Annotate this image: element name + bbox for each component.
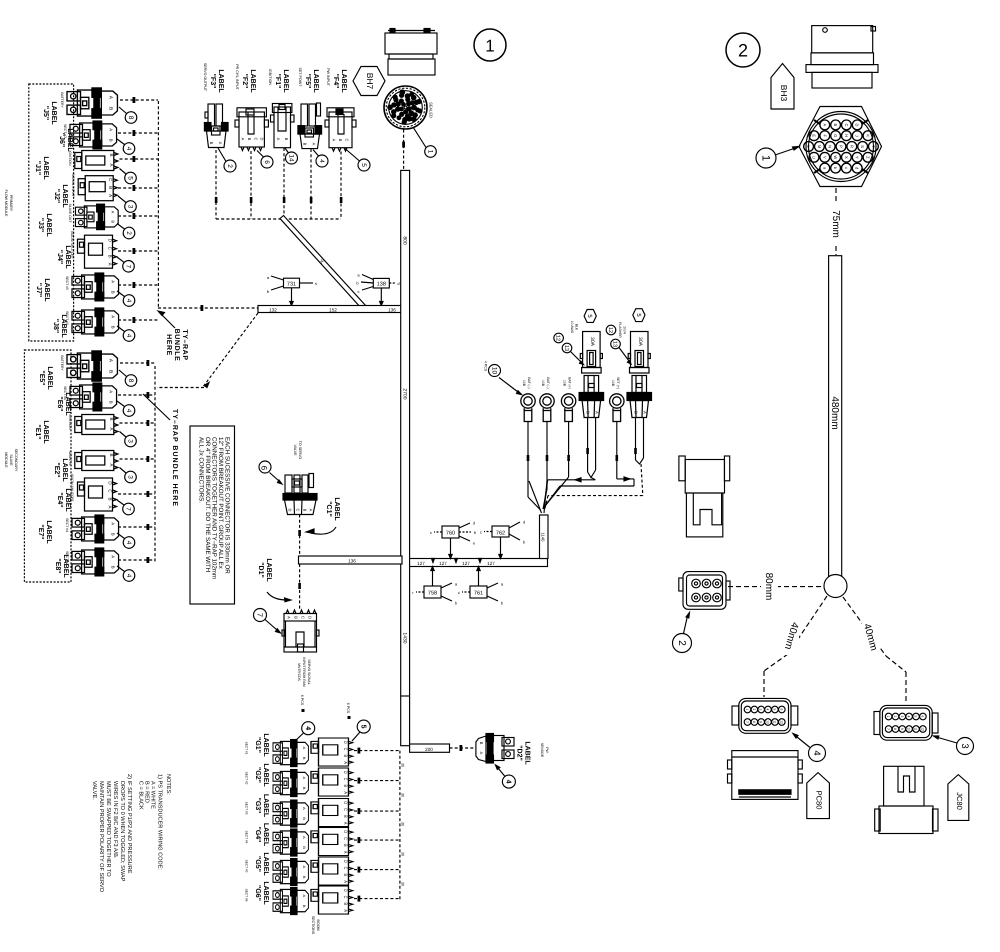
balloon 12 breaker1 xyxy=(554,333,564,343)
svg-text:SLAVE OUT: SLAVE OUT xyxy=(68,204,72,223)
trunk dim 2700 xyxy=(401,386,408,402)
balloon 7 D1 xyxy=(254,609,281,634)
svg-text:SENSOR: SENSOR xyxy=(540,743,544,758)
wire collector F dashed xyxy=(216,218,341,220)
svg-text:D: D xyxy=(855,123,860,126)
svg-text:"G1": "G1" xyxy=(254,737,261,753)
connector JD80 side view xyxy=(875,766,938,833)
svg-text:1140: 1140 xyxy=(541,532,546,542)
svg-text:LABEL: LABEL xyxy=(45,213,52,237)
svg-text:"G2": "G2" xyxy=(254,767,261,783)
svg-text:PW: PW xyxy=(545,747,549,753)
connector J5 xyxy=(60,88,117,118)
svg-text:B: B xyxy=(303,143,308,146)
connector E4 xyxy=(70,474,117,511)
svg-text:7: 7 xyxy=(745,721,749,723)
tag JC80 xyxy=(948,775,969,821)
svg-text:LABEL: LABEL xyxy=(43,278,50,302)
connector E5 xyxy=(60,351,117,381)
trunk dim 1430 xyxy=(401,630,408,646)
label J8 xyxy=(52,314,67,338)
connector JD80 face 12-pin xyxy=(874,705,938,740)
svg-text:SLAVE: SLAVE xyxy=(9,454,13,466)
svg-text:D: D xyxy=(308,616,313,619)
svg-text:U: U xyxy=(812,156,817,159)
wire G4 dashed xyxy=(354,837,400,843)
svg-text:BAT (+): BAT (+) xyxy=(568,377,572,388)
svg-text:V: V xyxy=(822,156,827,159)
backshell BH7 body xyxy=(385,29,437,76)
connector G4 right xyxy=(311,828,353,856)
svg-text:A: A xyxy=(276,138,281,141)
svg-text:PRIMARY: PRIMARY xyxy=(9,195,13,212)
wire G1 dashed xyxy=(354,748,400,754)
balloon 13 breaker2 xyxy=(611,339,631,364)
svg-text:4: 4 xyxy=(304,726,311,730)
label J1 xyxy=(34,156,49,180)
svg-text:760: 760 xyxy=(446,531,455,537)
connector E2 xyxy=(68,450,118,470)
svg-text:11: 11 xyxy=(914,727,918,731)
label C1 xyxy=(306,497,340,534)
svg-text:480mm: 480mm xyxy=(829,396,840,429)
wire collector G dashed xyxy=(400,751,405,900)
svg-text:SERVO OUTPUT: SERVO OUTPUT xyxy=(203,63,207,92)
svg-text:LABEL: LABEL xyxy=(262,794,269,818)
wire breaker1 xyxy=(544,418,596,510)
svg-text:ALL Jx CONNECTORS.: ALL Jx CONNECTORS. xyxy=(198,437,205,503)
label E7 xyxy=(37,520,52,544)
note boom sections xyxy=(311,916,320,935)
svg-text:TY–RAP BUNDLE HERE: TY–RAP BUNDLE HERE xyxy=(171,409,178,507)
wire lead from round connector xyxy=(402,130,405,171)
wire E8 dashed xyxy=(118,557,155,563)
module label secondary xyxy=(4,449,18,472)
svg-text:HERE: HERE xyxy=(165,334,172,356)
wire F4 dashed xyxy=(340,152,343,220)
svg-text:127: 127 xyxy=(462,561,470,566)
connector D2 xyxy=(476,734,514,764)
svg-text:c: c xyxy=(430,530,432,535)
svg-text:A: A xyxy=(312,143,317,146)
connector PC80 side view xyxy=(728,751,803,800)
trunk joint tick xyxy=(401,695,410,697)
breaker 2 xyxy=(618,322,652,417)
label F2 xyxy=(235,64,256,93)
label E5 xyxy=(38,366,53,390)
svg-text:d: d xyxy=(855,167,860,169)
svg-text:"E7": "E7" xyxy=(37,524,44,539)
svg-text:758: 758 xyxy=(428,591,437,597)
note servo signal input xyxy=(297,657,311,712)
svg-text:12: 12 xyxy=(607,327,613,333)
harness trunk vertical xyxy=(401,170,410,745)
svg-text:VALVE: VALVE xyxy=(293,444,297,456)
notes text xyxy=(91,774,171,893)
svg-text:127: 127 xyxy=(487,561,495,566)
wire code 758 xyxy=(412,567,458,606)
svg-text:D: D xyxy=(288,509,293,512)
svg-text:N: N xyxy=(828,145,833,148)
svg-text:P: P xyxy=(839,145,844,148)
connector J2 xyxy=(71,173,117,200)
module label primary xyxy=(4,190,13,217)
svg-text:A: A xyxy=(218,142,223,145)
svg-text:LABEL: LABEL xyxy=(45,520,52,544)
wire G2 dashed xyxy=(354,778,400,784)
connector round multi-pin xyxy=(384,86,434,129)
svg-text:K: K xyxy=(866,134,871,137)
svg-text:10: 10 xyxy=(766,720,770,724)
junction circle xyxy=(824,575,847,598)
svg-text:1430: 1430 xyxy=(401,632,407,643)
wire ring3 xyxy=(545,422,570,506)
svg-text:1: 1 xyxy=(886,716,890,718)
svg-text:W: W xyxy=(833,155,838,159)
svg-text:2: 2 xyxy=(226,164,233,168)
svg-text:3: 3 xyxy=(127,439,134,443)
tag PC80 xyxy=(807,773,830,819)
svg-text:"G6": "G6" xyxy=(254,885,261,901)
svg-text:6: 6 xyxy=(260,466,269,471)
connector G3 left xyxy=(245,800,309,827)
svg-text:2) IF SETTING P1/P2 AND PRESSU: 2) IF SETTING P1/P2 AND PRESSURE xyxy=(126,774,133,874)
harness collector vertical xyxy=(540,515,549,559)
svg-text:LABEL: LABEL xyxy=(340,69,347,93)
svg-text:SECONDARY: SECONDARY xyxy=(14,449,18,472)
svg-text:4: 4 xyxy=(125,409,132,413)
label J7 xyxy=(35,278,50,302)
svg-text:LABEL: LABEL xyxy=(262,823,269,847)
svg-text:BOOM: BOOM xyxy=(316,920,320,931)
svg-text:12: 12 xyxy=(920,727,924,731)
balloon 4 J7 xyxy=(117,291,135,306)
svg-text:152: 152 xyxy=(329,307,337,312)
wire ring2 xyxy=(543,422,548,509)
svg-text:"E5": "E5" xyxy=(38,370,45,385)
wire dashed diagonal to E bundle xyxy=(157,313,258,388)
svg-text:LABEL: LABEL xyxy=(42,156,49,180)
balloon 4 item xyxy=(793,734,826,762)
svg-text:TO SERVO: TO SERVO xyxy=(298,441,302,460)
svg-text:BAT (–): BAT (–) xyxy=(546,377,550,388)
balloon 7 J4 xyxy=(117,257,134,272)
wire collector J dashed xyxy=(157,101,159,308)
balloon 6 F2 xyxy=(257,151,273,169)
svg-text:4: 4 xyxy=(125,574,132,578)
svg-text:C: C xyxy=(345,139,350,142)
wire E6 dashed xyxy=(118,392,155,398)
svg-text:LABEL: LABEL xyxy=(64,245,71,269)
svg-text:"J3": "J3" xyxy=(37,218,44,232)
wire J bundle to bar dashed xyxy=(158,305,258,311)
svg-text:4: 4 xyxy=(504,780,511,784)
svg-text:7: 7 xyxy=(125,507,132,511)
connector F3 xyxy=(204,104,228,148)
svg-text:SERVO SIGNAL: SERVO SIGNAL xyxy=(307,659,311,684)
svg-text:4: 4 xyxy=(766,709,770,711)
wire J5 dashed xyxy=(120,97,158,103)
connector J6 xyxy=(63,121,117,149)
svg-text:10: 10 xyxy=(907,727,911,731)
balloon 4 J8 xyxy=(117,326,135,341)
svg-text:G: G xyxy=(833,134,838,137)
label G1 xyxy=(254,733,269,757)
svg-text:5: 5 xyxy=(127,176,134,180)
svg-text:SECT #6: SECT #6 xyxy=(245,889,249,902)
svg-text:E: E xyxy=(812,134,817,137)
svg-text:8: 8 xyxy=(893,728,897,730)
balloon 4 E8 xyxy=(117,566,135,581)
svg-text:13: 13 xyxy=(612,341,618,347)
svg-text:"E6": "E6" xyxy=(56,396,63,411)
svg-text:B: B xyxy=(209,142,214,145)
svg-text:132: 132 xyxy=(269,307,277,312)
svg-text:"G5": "G5" xyxy=(254,856,261,872)
svg-text:"E4": "E4" xyxy=(56,492,63,507)
svg-text:s: s xyxy=(315,281,317,286)
wire E1 dashed xyxy=(120,420,156,426)
svg-text:2004: 2004 xyxy=(623,326,627,334)
svg-text:6: 6 xyxy=(779,709,783,711)
svg-text:11: 11 xyxy=(772,720,776,724)
svg-text:M: M xyxy=(817,145,822,148)
svg-text:SET POINT: SET POINT xyxy=(298,68,302,88)
svg-text:3: 3 xyxy=(900,716,904,718)
svg-text:A: A xyxy=(309,509,314,512)
svg-text:Y: Y xyxy=(855,156,860,159)
connector J3 xyxy=(68,204,118,230)
connector G2 right xyxy=(311,768,353,796)
wire G5 dashed xyxy=(354,867,400,873)
balloon 5 G1 xyxy=(352,720,370,741)
svg-text:4: 4 xyxy=(811,750,822,755)
balloon 4 D2 xyxy=(496,765,516,788)
connector G3 right xyxy=(311,799,353,827)
svg-text:1: 1 xyxy=(760,155,772,161)
connector hex receptacle xyxy=(799,107,882,187)
svg-text:"F4": "F4" xyxy=(332,74,339,89)
svg-text:c: c xyxy=(480,530,482,535)
svg-text:INPUT FROM RAM: INPUT FROM RAM xyxy=(302,657,306,687)
harness bar 2 right xyxy=(410,559,548,567)
svg-text:5: 5 xyxy=(914,716,918,718)
balloon 12 breaker2 xyxy=(606,325,616,335)
wire J2 dashed xyxy=(118,185,158,191)
wire code 760 xyxy=(430,521,477,559)
note box xyxy=(190,426,235,604)
svg-text:IGNITION: IGNITION xyxy=(68,414,72,430)
svg-text:2: 2 xyxy=(738,41,748,61)
svg-text:6 PCS: 6 PCS xyxy=(346,703,350,714)
svg-text:"D1": "D1" xyxy=(257,562,264,578)
svg-text:"G3": "G3" xyxy=(254,798,261,814)
wire F3 dashed xyxy=(215,150,218,219)
svg-text:LABEL: LABEL xyxy=(60,314,67,338)
connector G6 right xyxy=(311,886,353,914)
svg-text:"J8": "J8" xyxy=(52,319,59,333)
svg-text:LABEL: LABEL xyxy=(61,458,68,482)
wire E5 dashed xyxy=(120,360,155,366)
label F3 xyxy=(203,63,224,94)
svg-text:5: 5 xyxy=(359,725,366,729)
svg-text:10: 10 xyxy=(491,367,498,375)
svg-text:d: d xyxy=(397,281,399,286)
svg-text:"J7": "J7" xyxy=(35,283,42,297)
harness bar 3 xyxy=(410,744,450,752)
wire collector E dashed xyxy=(154,366,156,562)
wire code 762 xyxy=(480,520,526,559)
harness bar 2 left xyxy=(299,556,403,564)
svg-text:10B: 10B xyxy=(522,380,526,387)
svg-text:30: 30 xyxy=(401,793,405,797)
svg-text:761: 761 xyxy=(474,591,483,597)
label J5 xyxy=(42,101,57,125)
svg-text:LABEL: LABEL xyxy=(46,366,53,390)
connector G6 left xyxy=(245,888,309,915)
svg-text:1: 1 xyxy=(485,37,494,56)
svg-text:PW INPUT: PW INPUT xyxy=(326,68,330,86)
wire code 138 xyxy=(356,273,399,306)
balloon 3 E2 xyxy=(120,468,137,483)
svg-text:B: B xyxy=(294,616,299,619)
svg-text:BH3: BH3 xyxy=(779,85,789,102)
connector F4 xyxy=(325,108,356,151)
svg-text:PR CH'L INPUT: PR CH'L INPUT xyxy=(235,64,239,90)
svg-text:c: c xyxy=(358,289,360,294)
svg-text:200: 200 xyxy=(425,747,433,752)
svg-text:LABEL: LABEL xyxy=(217,69,224,93)
ring terminal 1 xyxy=(521,377,535,421)
svg-text:C: C xyxy=(844,123,849,126)
balloon 1 sheet xyxy=(474,29,506,61)
svg-text:138: 138 xyxy=(377,282,386,288)
trunk dim 800 xyxy=(401,234,408,247)
svg-text:SECT #3: SECT #3 xyxy=(245,802,249,815)
balloon 4 G1 xyxy=(295,722,315,741)
svg-text:8: 8 xyxy=(752,721,756,723)
svg-text:7: 7 xyxy=(256,613,265,617)
wire G6 dashed xyxy=(354,896,400,902)
note 6 pcs right xyxy=(346,703,351,719)
svg-text:13: 13 xyxy=(563,345,569,351)
svg-text:1: 1 xyxy=(745,709,749,711)
wire F1 dashed xyxy=(283,148,286,219)
svg-text:A: A xyxy=(479,752,484,755)
label G3 xyxy=(254,794,269,818)
harness diagonal branch xyxy=(280,216,367,310)
svg-text:B: B xyxy=(303,509,308,512)
svg-text:A: A xyxy=(241,138,246,141)
svg-text:FLASHER: FLASHER xyxy=(618,322,622,338)
svg-text:731: 731 xyxy=(287,282,296,288)
balloon 2 J3 xyxy=(117,224,135,239)
connector F2 xyxy=(235,108,268,151)
svg-text:7: 7 xyxy=(886,728,890,730)
connector F1 xyxy=(271,104,295,148)
svg-text:SECT #5: SECT #5 xyxy=(245,860,249,873)
svg-text:762: 762 xyxy=(496,531,505,537)
svg-text:9: 9 xyxy=(759,721,763,723)
svg-text:4: 4 xyxy=(318,159,325,163)
svg-text:"F1": "F1" xyxy=(274,74,281,89)
svg-text:136: 136 xyxy=(348,559,356,564)
balloon 5 J1 xyxy=(120,169,137,184)
svg-text:VALVE.: VALVE. xyxy=(91,781,97,800)
label D1 pointer xyxy=(257,558,291,601)
svg-text:BAT (–): BAT (–) xyxy=(527,377,531,388)
balloon 10 rings xyxy=(484,361,522,395)
wire to D2 dashed xyxy=(450,745,476,751)
wire ring4 xyxy=(545,422,634,506)
connector E6 xyxy=(63,383,117,411)
wire J4 dashed xyxy=(118,248,158,254)
svg-text:7: 7 xyxy=(125,264,132,268)
ring terminal 2 xyxy=(540,377,554,421)
svg-text:4: 4 xyxy=(125,541,132,545)
connector E1 xyxy=(68,414,118,434)
svg-text:"D2": "D2" xyxy=(516,745,523,761)
connector D1 xyxy=(282,610,319,652)
tag BH7 hexagon xyxy=(353,67,385,96)
svg-text:10 AWG: 10 AWG xyxy=(570,321,574,334)
balloon 7 E4 xyxy=(117,500,134,515)
ring terminal 4 xyxy=(610,377,624,421)
svg-text:3: 3 xyxy=(959,743,970,748)
label E6 xyxy=(56,392,71,416)
svg-text:LABEL: LABEL xyxy=(282,69,289,93)
wire F2 dashed xyxy=(250,151,253,219)
note to servo valve xyxy=(293,441,302,460)
svg-text:LABEL: LABEL xyxy=(62,554,69,578)
svg-text:LABEL: LABEL xyxy=(524,741,531,765)
balloon 6 C1 xyxy=(259,461,282,484)
svg-text:H: H xyxy=(844,134,849,137)
wire E7 dashed xyxy=(118,524,155,530)
svg-text:6: 6 xyxy=(920,716,924,718)
harness bar 1 xyxy=(258,306,401,313)
connector E7 xyxy=(65,515,119,543)
label J6 xyxy=(58,128,73,152)
svg-text:A: A xyxy=(287,616,292,619)
svg-text:c: c xyxy=(844,167,849,169)
wire breaker2 dashed xyxy=(545,418,644,511)
wire code 761 xyxy=(458,567,504,606)
svg-text:BUNDLE: BUNDLE xyxy=(173,329,180,362)
svg-text:FLOW MODULE: FLOW MODULE xyxy=(4,190,8,217)
balloon 2 sheet xyxy=(726,33,760,67)
svg-text:8: 8 xyxy=(127,379,134,383)
balloon 4 F5 xyxy=(313,150,328,168)
balloon 8 J5 xyxy=(119,107,137,123)
svg-text:"J2": "J2" xyxy=(53,189,60,203)
label G5 xyxy=(254,852,269,876)
svg-text:C: C xyxy=(301,616,306,619)
svg-text:NOTES:: NOTES: xyxy=(165,774,171,795)
svg-text:LABEL: LABEL xyxy=(42,420,49,444)
balloon 2 item xyxy=(673,613,692,653)
svg-text:5: 5 xyxy=(772,709,776,711)
label G4 xyxy=(254,823,269,847)
svg-text:30: 30 xyxy=(401,882,405,886)
svg-text:"F2": "F2" xyxy=(241,74,248,89)
svg-text:4: 4 xyxy=(125,334,132,338)
svg-text:SECTIONS: SECTIONS xyxy=(311,916,315,935)
svg-text:"J6": "J6" xyxy=(58,133,65,147)
balloon 4 E7 xyxy=(117,533,135,548)
svg-text:X: X xyxy=(844,156,849,159)
svg-text:136: 136 xyxy=(388,307,396,312)
